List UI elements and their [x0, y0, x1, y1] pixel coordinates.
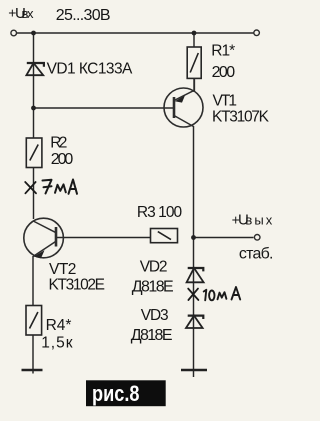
svg-text:R3 100: R3 100: [137, 204, 183, 221]
svg-text:R1*: R1*: [211, 42, 235, 59]
svg-text:200: 200: [212, 64, 236, 81]
svg-text:KT3102Е: KT3102Е: [49, 277, 106, 294]
svg-text:рис.8: рис.8: [92, 381, 140, 406]
svg-text:VT1: VT1: [213, 92, 238, 109]
svg-text:Д818Е: Д818Е: [132, 279, 174, 296]
svg-text:200: 200: [51, 151, 74, 168]
svg-text:VD3: VD3: [141, 307, 169, 324]
svg-text:стаб.: стаб.: [239, 246, 274, 263]
svg-text:вых: вых: [245, 213, 272, 228]
svg-text:VT2: VT2: [49, 261, 76, 278]
svg-text:R2: R2: [50, 134, 67, 151]
svg-text:вх: вх: [22, 6, 35, 21]
svg-text:R4*: R4*: [46, 317, 72, 334]
svg-text:VD1 КС133А: VD1 КС133А: [47, 61, 133, 78]
svg-text:1,5к: 1,5к: [41, 334, 73, 351]
svg-text:Д818Е: Д818Е: [131, 327, 173, 344]
svg-text:25...30В: 25...30В: [56, 7, 111, 24]
svg-text:KT3107K: KT3107K: [212, 108, 270, 125]
svg-text:VD2: VD2: [140, 259, 168, 276]
